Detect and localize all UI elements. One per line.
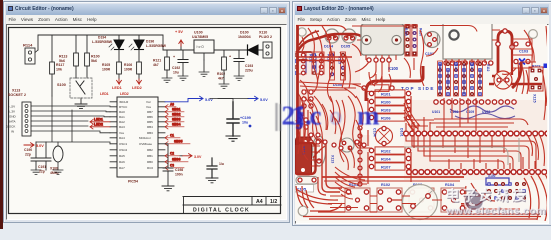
svg-text:100n: 100n: [175, 172, 183, 176]
dark photo edge sliver: [0, 0, 3, 229]
resistor R102: [217, 57, 229, 88]
svg-text:S100: S100: [57, 83, 66, 87]
label C105: [295, 185, 314, 193]
svg-text:R104: R104: [445, 183, 455, 187]
resistor footprint R103: [369, 106, 410, 113]
DIP columns R113: [330, 52, 346, 80]
title block text DIGITAL CLOCK / A4 / 1-2: [193, 199, 277, 213]
svg-text:RA3: RA3: [119, 125, 125, 129]
resistor footprint R102: [369, 147, 410, 154]
capacitor C190: [24, 142, 41, 174]
capacitor C193: [229, 55, 253, 81]
resistor R117: [50, 62, 65, 96]
traces left region: [297, 26, 424, 166]
silkscreen circle bottom-left: [298, 206, 308, 216]
svg-text:5.0V: 5.0V: [260, 98, 268, 102]
traces relay to stack: [352, 40, 391, 92]
svg-text:4k7: 4k7: [218, 76, 224, 80]
svg-text:PLUG 2: PLUG 2: [259, 35, 272, 39]
svg-text:RB6: RB6: [147, 115, 153, 119]
svg-text:R101: R101: [381, 92, 391, 97]
label R10X: [532, 64, 548, 69]
resistor R106: [124, 62, 141, 79]
svg-text:22p: 22p: [39, 169, 45, 173]
capacitor C103: [512, 50, 532, 69]
svg-text:RB5: RB5: [147, 120, 153, 124]
left window: Circuit Editor: [3, 1, 290, 223]
svg-text:OSC2: OSC2: [119, 148, 128, 152]
svg-text:D105: D105: [341, 45, 350, 49]
resistor footprint R104: [369, 155, 410, 162]
svg-text:RA0: RA0: [119, 110, 125, 114]
svg-text:j: j: [296, 103, 305, 130]
extra traces left-mid: [296, 96, 345, 162]
svg-text:R107: R107: [381, 165, 391, 170]
svg-text:PIC54: PIC54: [128, 180, 138, 184]
ground under S100: [75, 104, 87, 109]
svg-text:U100: U100: [194, 31, 203, 35]
wire 5V to C199: [210, 99, 233, 103]
svg-text:RB7: RB7: [147, 110, 153, 114]
resistor footprint R100: [369, 98, 410, 105]
svg-text:X113: X113: [331, 155, 335, 163]
svg-text:R113: R113: [59, 55, 67, 59]
svg-text:10u: 10u: [173, 70, 179, 74]
resistor footprint R106: [369, 114, 410, 121]
svg-text:A0: A0: [170, 103, 174, 107]
svg-text:K100: K100: [388, 66, 399, 71]
svg-text:220u: 220u: [245, 68, 253, 72]
svg-text:+C199: +C199: [240, 116, 251, 120]
ground under crystal: [53, 170, 63, 174]
svg-text:3.0V: 3.0V: [194, 155, 202, 159]
elecfans watermark logo: [465, 192, 484, 211]
pad row under transformer: [444, 61, 493, 65]
svg-text:R110: R110: [470, 64, 474, 72]
svg-text:X113: X113: [12, 89, 20, 93]
svg-text:D104: D104: [324, 45, 334, 49]
connector X113: [8, 89, 31, 137]
footprint above C103: [512, 39, 532, 49]
svg-text:OVRbase: OVRbase: [139, 142, 152, 146]
resistor R105: [102, 62, 121, 79]
svg-text:UA78M05: UA78M05: [192, 35, 208, 39]
transformer body: [443, 21, 492, 59]
board pink wash zones: [295, 40, 547, 190]
long pad row lower: [407, 170, 547, 175]
net arrow LED1: [112, 79, 122, 90]
extra bottom buses: [322, 104, 540, 214]
svg-text:100R: 100R: [124, 67, 133, 71]
elecfans watermark text: [445, 188, 547, 218]
twin vertical traces: [322, 140, 342, 192]
svg-text:LED1: LED1: [100, 92, 109, 96]
LED D196: [129, 40, 167, 63]
wiggle traces bottom-left: [296, 189, 342, 211]
svg-text:RA4: RA4: [119, 136, 125, 140]
labels under DIP: [432, 110, 490, 114]
capacitor C192: [172, 55, 188, 80]
stack flank verticals: [368, 96, 414, 184]
svg-text:LED1: LED1: [94, 118, 103, 122]
long pad row upper: [404, 131, 550, 136]
bus above buttons: [322, 177, 480, 204]
svg-text:SEG1: SEG1: [172, 108, 181, 112]
pads on n-trace: [496, 29, 514, 49]
svg-text:Vss: Vss: [119, 131, 125, 135]
svg-text:SEG2: SEG2: [172, 113, 181, 117]
title block: [183, 197, 281, 214]
svg-text:X115: X115: [533, 94, 537, 103]
resistor R100: [85, 53, 100, 66]
resistor footprint R107: [369, 163, 410, 170]
connector X110: [259, 31, 272, 59]
connector X114: [296, 137, 312, 175]
ground under R121: [162, 78, 172, 82]
blue layer traces: [306, 55, 515, 119]
svg-text:DIGITAL CLOCK: DIGITAL CLOCK: [193, 207, 250, 213]
svg-text:R103: R103: [381, 108, 391, 113]
svg-text:LED1: LED1: [112, 86, 122, 90]
svg-text:1/2: 1/2: [270, 199, 277, 205]
svg-text:L-53SRGBW: L-53SRGBW: [146, 44, 167, 48]
svg-text:5.0V: 5.0V: [36, 144, 44, 148]
svg-text:10u: 10u: [242, 121, 248, 125]
svg-text:RA5: RA5: [119, 154, 125, 158]
DIP block U100 area: [438, 61, 490, 96]
svg-text:RB0: RB0: [147, 160, 153, 164]
svg-text:R117: R117: [56, 63, 64, 67]
svg-text:R114: R114: [23, 43, 33, 48]
svg-text:R102: R102: [381, 183, 390, 187]
svg-text:SEG3: SEG3: [172, 118, 181, 122]
svg-text:C1: C1: [170, 134, 174, 138]
svg-text:5k6: 5k6: [91, 59, 97, 63]
resistor R113: [59, 53, 78, 66]
svg-text:+: +: [229, 55, 231, 59]
svg-text:LED2: LED2: [94, 123, 103, 127]
net arrow LED2: [132, 79, 142, 90]
wire top bus: [38, 35, 163, 62]
svg-text:D100: D100: [240, 31, 249, 35]
svg-text:R100: R100: [381, 100, 391, 105]
button footprint R103: [409, 183, 434, 212]
svg-text:TOP SIDE: TOP SIDE: [401, 86, 435, 91]
diode D100: [238, 31, 258, 56]
svg-text:SEG4: SEG4: [172, 123, 181, 127]
svg-text:0_3V: 0_3V: [8, 109, 15, 113]
resistor footprint R101: [369, 90, 410, 97]
arc traces bottom right: [465, 174, 551, 221]
svg-text:SEG5: SEG5: [174, 140, 183, 144]
svg-text:C2: C2: [170, 152, 174, 156]
resistor R121: [153, 57, 169, 78]
svg-text:SEG6: SEG6: [172, 158, 181, 162]
svg-text:LED2: LED2: [132, 86, 142, 90]
transistor C102: [424, 32, 440, 57]
svg-text:RTCC: RTCC: [119, 105, 128, 109]
IC pin stubs: [110, 102, 165, 168]
wire 5V rail: [163, 40, 263, 60]
fan traces left of pad rows: [348, 96, 434, 148]
power arrow 5.0V right edge: [218, 96, 268, 102]
thick trace left edge: [295, 25, 316, 174]
svg-text:SOCKET 2: SOCKET 2: [8, 93, 26, 97]
svg-text:RC0: RC0: [147, 166, 153, 170]
power arrow +5V: [175, 30, 183, 46]
svg-text:RA2: RA2: [119, 120, 125, 124]
pad column mid-left: [358, 126, 362, 186]
IC U101: [117, 97, 158, 184]
bus traces between pad rows: [406, 136, 545, 169]
svg-text:D101: D101: [400, 128, 404, 137]
svg-text:R108: R108: [454, 64, 458, 72]
svg-text:100R: 100R: [102, 67, 111, 71]
button footprint R104: [441, 183, 466, 212]
net labels above IC: [100, 92, 129, 96]
svg-text:C3: C3: [170, 164, 174, 168]
regulator U100: [192, 31, 214, 77]
svg-text:CLOCK: CLOCK: [5, 124, 15, 128]
svg-text:IN: IN: [11, 129, 14, 133]
svg-text:RA1: RA1: [119, 115, 125, 119]
svg-text:/MCLR: /MCLR: [119, 100, 129, 104]
svg-text:22p: 22p: [25, 152, 31, 156]
power arrow 5.0V red bottom-left: [24, 143, 44, 148]
silkscreen circle top-left: [298, 28, 306, 36]
footprint above stack: [362, 85, 394, 92]
capacitor C104 footprint: [373, 126, 404, 145]
svg-text:R106: R106: [381, 116, 391, 121]
capacitor C191: [38, 142, 51, 173]
svg-text:DATA: DATA: [8, 119, 16, 123]
svg-text:R102: R102: [381, 149, 391, 154]
svg-text:C103: C103: [519, 50, 528, 54]
svg-text:Vcc: Vcc: [146, 100, 152, 104]
pad group left middle: [297, 90, 313, 129]
electrolytic capacitor: [489, 62, 542, 89]
stubs above long pad row: [406, 117, 430, 131]
capacitor C198: [162, 144, 183, 191]
bus pair under relay: [298, 57, 352, 61]
svg-text:+ 5V: + 5V: [175, 30, 183, 34]
svg-text:L-53SRGBW: L-53SRGBW: [92, 40, 113, 44]
net arrow 3.0V: [180, 154, 202, 159]
crystal footprint: [313, 136, 326, 166]
button footprint R101: [345, 183, 370, 212]
LED D194: [92, 36, 124, 63]
silkscreen circle top-right: [529, 30, 538, 39]
relay pads: [367, 58, 391, 62]
thick trace n-shape: [498, 31, 512, 78]
crystal C105 footprint: [296, 177, 318, 185]
svg-text:R104: R104: [381, 157, 391, 162]
crystal X100: [50, 142, 63, 175]
svg-text:C109: C109: [466, 110, 474, 114]
relay K100: [361, 24, 404, 71]
svg-text:www.elecfans.com: www.elecfans.com: [445, 205, 546, 217]
svg-text:OSC1: OSC1: [119, 142, 128, 146]
thick trace over D104 D105: [297, 31, 363, 52]
svg-text:LED2: LED2: [120, 92, 129, 96]
svg-text:c: c: [310, 101, 322, 131]
svg-text:R119: R119: [404, 28, 408, 36]
silkscreen lines mid: [404, 138, 519, 165]
buzzer outline: [403, 185, 438, 220]
wires connector to IC: [31, 106, 110, 133]
diode D105: [341, 29, 356, 49]
transistor Q100: [340, 138, 354, 152]
connector R114: [23, 43, 38, 65]
button footprint R102: [377, 183, 402, 212]
power arrow 5.0V blue near IC top: [165, 96, 213, 102]
svg-text:U101: U101: [432, 110, 440, 114]
traces along top edge: [296, 26, 477, 32]
left column verticals: [300, 96, 314, 208]
blue 21ic watermark: [275, 101, 380, 132]
scattered pads mid-left: [309, 133, 366, 150]
net arrows left of IC: [90, 118, 110, 129]
svg-text:RB2: RB2: [147, 148, 153, 152]
svg-text:1N4004: 1N4004: [238, 35, 251, 39]
svg-text:X110: X110: [259, 31, 267, 35]
svg-text:+: +: [173, 55, 175, 59]
header blocks R112 R117: [294, 52, 331, 75]
diode D104: [324, 29, 339, 49]
left edge tick mark: [1, 206, 5, 212]
svg-text:Vss: Vss: [146, 105, 152, 109]
svg-text:m: m: [357, 101, 380, 131]
thick bus trace to relay: [366, 66, 423, 101]
svg-text:RB3: RB3: [147, 131, 153, 135]
switch S100: [57, 66, 92, 104]
svg-text:GND: GND: [9, 114, 17, 118]
svg-text:4k7: 4k7: [153, 63, 159, 67]
svg-text:R112: R112: [486, 64, 490, 72]
svg-text:o: o: [329, 101, 343, 131]
traces upper right region: [426, 26, 548, 120]
svg-text:R100: R100: [91, 55, 100, 59]
drawing frame: [9, 28, 281, 214]
svg-text:RB1: RB1: [147, 154, 153, 158]
right window: Layout Editor: [292, 1, 551, 226]
capacitor C196 bottom: [206, 158, 224, 183]
label TOP SIDE: [401, 86, 435, 91]
connector pin name labels: [5, 104, 17, 133]
wire from bus x52 down to crystal rail: [36, 96, 110, 144]
svg-text:MClk/ovr: MClk/ovr: [139, 136, 151, 140]
svg-text:X100: X100: [488, 174, 496, 178]
pad cluster bottom right: [486, 174, 526, 200]
diagonal bundle bottom-left: [335, 167, 367, 199]
bottom trace bundle: [296, 177, 541, 219]
pad row mid: [434, 100, 516, 104]
svg-text:1/u: 1/u: [219, 162, 224, 166]
label D100: [333, 83, 342, 87]
svg-text:10k: 10k: [56, 68, 62, 72]
svg-text:5k6: 5k6: [59, 59, 65, 63]
svg-text:+_5V: +_5V: [8, 104, 15, 108]
connector X115: [529, 64, 548, 103]
bus under relay: [299, 82, 368, 98]
svg-text:RB4: RB4: [147, 125, 153, 129]
svg-text:A4: A4: [256, 199, 263, 205]
resistors R119 R120: [404, 24, 423, 56]
svg-text:RA7: RA7: [119, 166, 125, 170]
svg-text:RA6: RA6: [119, 160, 125, 164]
svg-text:I·o·O: I·o·O: [197, 45, 205, 49]
net arrows right of IC: [165, 103, 190, 170]
bus above long pad row: [430, 98, 528, 131]
capacitor C199: [226, 102, 251, 141]
board background: [295, 24, 547, 221]
